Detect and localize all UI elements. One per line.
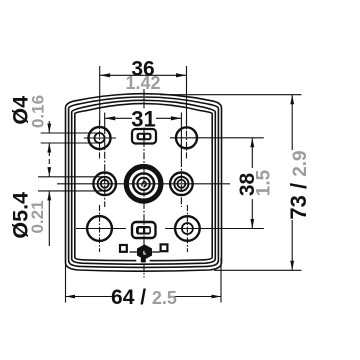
- mid horizontal centerline: [57, 183, 230, 185]
- dim 64 dimension line: [66, 296, 113, 298]
- hole mid-right inner circle: [177, 180, 185, 188]
- dim 38 arrow up: [250, 138, 254, 148]
- dim 64 left arrow: [66, 295, 76, 299]
- center bore spring mark: [142, 182, 146, 187]
- dim O4 tangent lines: [41, 132, 100, 134]
- bottom-right locating square: [161, 244, 168, 251]
- dim 64 right arrow: [212, 295, 222, 299]
- body contour 2: [69, 97, 219, 267]
- locating pin hexagon crosshair stubs: [130, 251, 137, 253]
- dim O4/O5.4 dashed connector: [48, 143, 50, 177]
- bottom notch: [136, 258, 149, 263]
- locating pin hexagon: [138, 245, 152, 259]
- hole top-right centerline vertical: [186, 120, 188, 159]
- hole mid-left middle circle: [98, 177, 112, 191]
- hole top-left outer circle: [89, 127, 111, 149]
- dim 73 dimension line: [291, 95, 293, 150]
- hole mid-left centerline vertical (31 extension): [104, 113, 106, 128]
- dim 36 left extension line: [99, 66, 101, 124]
- hole mid-right outer circle: [170, 173, 193, 196]
- body contour outer: [66, 94, 222, 272]
- dim O5.4 arrow down: [47, 167, 51, 177]
- bottom port inner windows: [139, 228, 143, 232]
- hole bottom-left crosshair horizontal: [76, 228, 126, 230]
- hole bottom-left centerline vertical: [99, 205, 101, 252]
- bottom-left locating square: [120, 245, 127, 252]
- center bore middle ring: [133, 173, 154, 194]
- dim 31 left arrow: [105, 116, 116, 120]
- center bore inner ring: [137, 178, 149, 190]
- dim 36 left arrow: [100, 73, 111, 77]
- hole mid-left outer circle: [93, 173, 116, 196]
- body contour inner: [75, 104, 212, 261]
- bottom port outer rect: [132, 222, 156, 238]
- dim 38 dimension line: [251, 138, 253, 168]
- dim 64 right extension line: [220, 258, 222, 303]
- hole bottom-right centerline vertical: [186, 205, 188, 252]
- dim 38 arrow down: [250, 219, 254, 229]
- bottom port inner block: [136, 226, 151, 235]
- hole top-left centerline vertical: [99, 120, 101, 159]
- hole bottom-right inner circle: [182, 223, 193, 234]
- hole top-left crosshair horizontal: [84, 137, 116, 139]
- hole bottom-right outer circle: [175, 216, 200, 241]
- svg-text:64 / 2.5: 64 / 2.5: [111, 286, 177, 309]
- hole mid-right middle circle: [174, 177, 188, 191]
- dim 64 left extension line: [65, 262, 67, 303]
- dim 36 right extension line: [186, 66, 188, 124]
- dim 36 right arrow: [176, 73, 187, 77]
- dim O5.4 arrow up: [47, 191, 51, 201]
- hole bottom-left circle: [87, 216, 112, 241]
- svg-text:1.42: 1.42: [125, 73, 160, 93]
- top port inner windows: [139, 135, 143, 138]
- dim 36 dimension line: [100, 74, 187, 76]
- svg-text:1.5: 1.5: [254, 169, 275, 196]
- top port inner block: [137, 133, 152, 140]
- dim O5.4 tangent lines: [38, 176, 105, 178]
- dim O5.4 lower line: [48, 191, 50, 246]
- hole bottom-right crosshair horizontal + 38 bottom extension: [165, 228, 264, 230]
- center vertical centerline: [143, 89, 145, 110]
- svg-text:0.16: 0.16: [29, 95, 48, 128]
- dim 73 top extension line: [160, 94, 302, 96]
- dim 73 arrow down: [290, 261, 294, 271]
- dim 31 dimension line: [105, 117, 132, 119]
- hole top-right circle: [176, 127, 197, 148]
- hole top-right crosshair horizontal + 38 top extension: [170, 137, 264, 139]
- top port outer rect: [132, 129, 156, 144]
- center bore thick ring: [126, 167, 161, 202]
- dim O4 arrow down: [47, 124, 51, 134]
- locating pin inner mark: [144, 251, 146, 254]
- svg-text:31: 31: [131, 106, 155, 131]
- hole top-left inner circle: [95, 133, 105, 143]
- body contour 3: [72, 100, 216, 264]
- svg-text:0.21: 0.21: [28, 200, 47, 233]
- hole mid-right centerline vertical (31 extension): [180, 113, 182, 161]
- svg-text:73 / 2.9: 73 / 2.9: [286, 150, 311, 219]
- dim 73 arrow up: [290, 95, 294, 105]
- dim O4 arrow up: [47, 143, 51, 153]
- dim 73 bottom extension line: [214, 269, 302, 271]
- hole mid-left inner circle: [101, 180, 109, 188]
- dim 31 right arrow: [171, 116, 182, 120]
- dim O4 dimension line upper: [48, 121, 50, 133]
